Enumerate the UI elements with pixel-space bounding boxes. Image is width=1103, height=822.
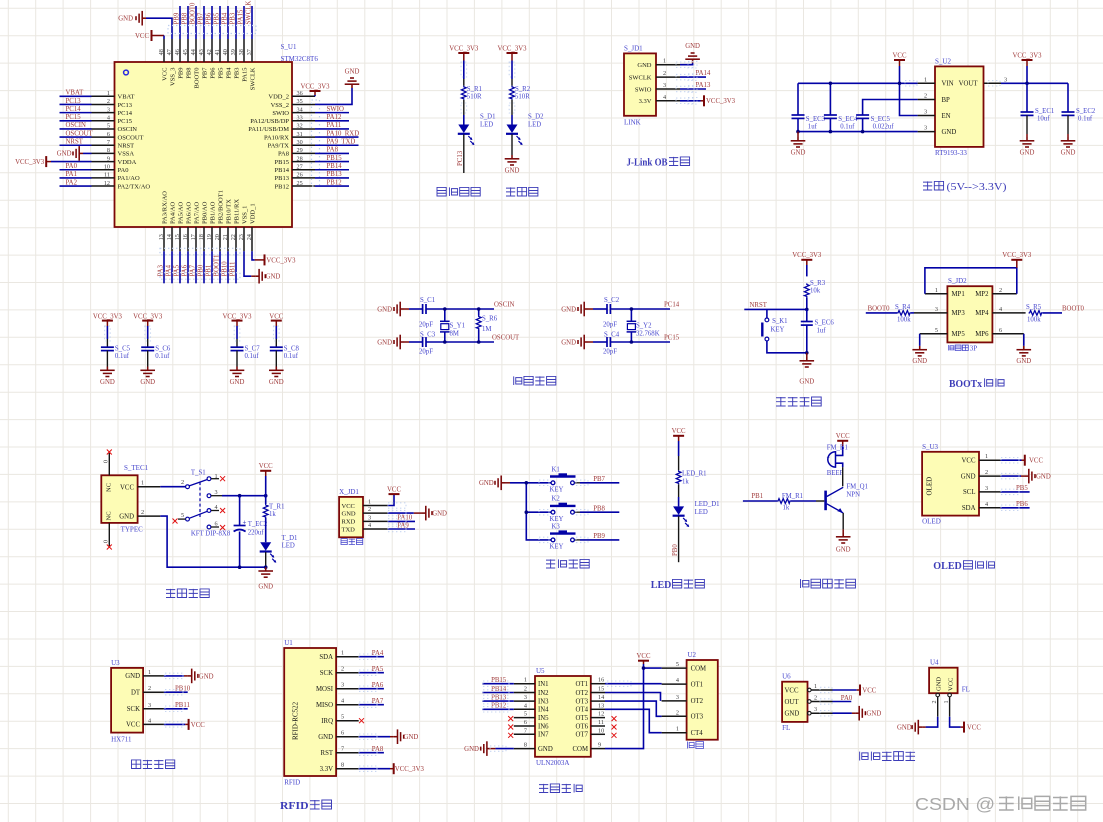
svg-text:2: 2: [999, 287, 1002, 294]
watermark CSDN: [915, 794, 1086, 814]
svg-text:9: 9: [598, 742, 601, 749]
svg-text:PB0: PB0: [672, 544, 679, 556]
svg-text:BEEP: BEEP: [827, 470, 844, 477]
svg-text:OLED: OLED: [922, 518, 941, 526]
svg-text:T_D1: T_D1: [282, 535, 298, 542]
svg-text:IN4: IN4: [538, 707, 549, 714]
svg-text:RT9193-33: RT9193-33: [935, 149, 967, 157]
svg-text:SDA: SDA: [962, 505, 976, 512]
svg-text:PA10 RXD: PA10 RXD: [327, 130, 360, 137]
wire LED_R1 to LED_D1: [678, 484, 680, 506]
svg-text:PA5: PA5: [372, 666, 384, 673]
module U6 body: [782, 682, 807, 722]
junction VCC-COM: [642, 666, 646, 670]
U4 pin circles: [931, 693, 951, 703]
U1 top pins 48-37: [158, 39, 256, 90]
svg-text:VCC_3V3: VCC_3V3: [300, 83, 330, 90]
svg-text:VCC: VCC: [269, 313, 283, 320]
svg-text:32: 32: [297, 123, 303, 130]
svg-text:OLED: OLED: [933, 561, 962, 572]
svg-text:34: 34: [297, 106, 303, 113]
svg-text:PB4: PB4: [225, 67, 232, 79]
svg-text:0: 0: [103, 540, 110, 543]
svg-text:PC15: PC15: [664, 335, 680, 342]
svg-text:20pF: 20pF: [419, 349, 433, 356]
svg-text:VCC: VCC: [1029, 458, 1043, 465]
RFID pins 1-8: [316, 650, 359, 773]
svg-text:GND: GND: [266, 274, 281, 281]
capacitor S_EC2 0.1uf: [1062, 83, 1096, 134]
svg-text:PA1: PA1: [66, 171, 77, 178]
U5 pin11 no-connect right: [612, 725, 617, 730]
selection marks S_U3: [1001, 458, 1019, 511]
svg-text:GND: GND: [464, 746, 479, 753]
svg-text:S_Y1: S_Y1: [450, 323, 466, 330]
svg-text:PB15: PB15: [491, 677, 507, 684]
net PA14 wire at S_JD1 pin 2: [680, 70, 711, 77]
title reset circuit: [776, 397, 821, 406]
svg-text:PB11: PB11: [229, 262, 236, 277]
svg-text:12: 12: [104, 180, 110, 187]
U5 pin7 no-connect: [508, 733, 513, 738]
svg-text:STM32C8T6: STM32C8T6: [281, 55, 319, 63]
wire buzzer to FM_Q1 collector: [842, 467, 844, 486]
svg-text:VCC: VCC: [836, 433, 850, 440]
wire T_S1 pin3 to VCC rail: [211, 495, 266, 497]
svg-text:IN6: IN6: [538, 723, 549, 730]
LED LED_D1: [673, 501, 720, 527]
ground at S_C2: [561, 302, 607, 317]
ground at S_JD2 pin 5: [912, 334, 927, 365]
selection marks S_C6: [145, 326, 151, 341]
svg-text:J-Link OB: J-Link OB: [627, 158, 668, 169]
svg-text:SDA: SDA: [319, 654, 333, 661]
U1 top net label wires PB9..SWCLK: [173, 1, 252, 39]
svg-text:100k: 100k: [897, 316, 911, 323]
svg-text:VCC: VCC: [962, 458, 976, 465]
svg-text:12: 12: [598, 711, 604, 718]
svg-text:PB7: PB7: [197, 12, 204, 24]
selection marks U3: [165, 673, 183, 727]
svg-text:GND: GND: [867, 711, 882, 718]
svg-text:2: 2: [663, 70, 666, 77]
svg-text:PB14: PB14: [491, 686, 507, 693]
S_TEC1 pin names: [106, 483, 135, 521]
svg-text:GND: GND: [561, 306, 576, 313]
svg-text:K3: K3: [552, 523, 561, 530]
net PB15 at U5 pin1: [482, 677, 513, 684]
LED S_D2: [506, 114, 544, 146]
svg-text:PA9/TX: PA9/TX: [268, 143, 290, 150]
svg-text:VCC_3V3: VCC_3V3: [792, 252, 822, 259]
svg-text:2: 2: [368, 506, 371, 513]
svg-text:NRST: NRST: [118, 143, 135, 150]
svg-text:OSCIN: OSCIN: [494, 302, 514, 309]
ground at S_C3: [377, 335, 422, 350]
S_U2 pin VOUT: [959, 76, 1007, 87]
ground TEC section: [258, 567, 273, 590]
net PB13 at U5 pin3: [482, 694, 513, 701]
svg-text:S_C6: S_C6: [155, 346, 171, 353]
key S_K1 KEY: [762, 309, 807, 352]
svg-text:9: 9: [107, 155, 110, 162]
svg-text:8: 8: [107, 147, 110, 154]
svg-text:PB5: PB5: [217, 68, 224, 79]
svg-text:S_Y2: S_Y2: [636, 323, 652, 330]
svg-text:S_C4: S_C4: [604, 331, 620, 338]
svg-text:1k: 1k: [269, 511, 276, 518]
svg-text:SWIO: SWIO: [635, 86, 652, 93]
svg-text:GND: GND: [1061, 150, 1076, 157]
svg-text:0.1uf: 0.1uf: [115, 353, 130, 360]
wire VCC_3V3 to R2: [511, 53, 513, 86]
svg-text:(5V-->3.3V): (5V-->3.3V): [947, 182, 1008, 193]
svg-text:PB13: PB13: [327, 171, 343, 178]
svg-text:20pF: 20pF: [603, 349, 617, 356]
svg-text:GND: GND: [897, 725, 912, 732]
title programmable LED: [437, 187, 480, 196]
svg-text:OSCOUT: OSCOUT: [66, 130, 94, 137]
wire PB7 at K1: [575, 476, 619, 483]
ground at S_C1: [377, 302, 422, 317]
svg-text:VDDA: VDDA: [118, 159, 137, 166]
title RFID module: [280, 800, 332, 812]
crystal S_Y2 32.768K: [627, 309, 660, 342]
LED T_D1: [260, 518, 298, 563]
svg-text:6: 6: [999, 327, 1002, 334]
svg-text:PB10: PB10: [221, 261, 228, 277]
svg-text:PA5/AO: PA5/AO: [177, 202, 184, 224]
svg-text:U1: U1: [284, 639, 293, 647]
power VCC_3V3 above S_C5: [93, 313, 123, 320]
title power 5V to 3.3V: [923, 181, 1007, 193]
title power input circuit: [166, 589, 209, 598]
svg-text:3: 3: [935, 306, 938, 313]
power VCC_3V3 above VOUT: [1012, 52, 1042, 83]
U2 pins 5-1: [662, 661, 707, 737]
svg-text:LED: LED: [480, 122, 493, 129]
wire TEC1 VCC to switch: [160, 486, 185, 488]
resistor S_R6 1M: [476, 309, 497, 342]
svg-text:SWCLK: SWCLK: [249, 67, 256, 90]
svg-text:NC: NC: [106, 511, 113, 520]
T_S1 pin4 no-connect: [211, 508, 225, 513]
svg-text:4: 4: [341, 698, 344, 705]
U1 right net label wires SWIO..PB12: [315, 106, 359, 186]
svg-text:GND: GND: [538, 746, 553, 753]
svg-text:S_D2: S_D2: [528, 114, 544, 121]
svg-text:2: 2: [141, 509, 144, 516]
ground below S_EC1: [1020, 134, 1035, 157]
svg-text:1: 1: [676, 726, 679, 733]
svg-text:3P: 3P: [970, 345, 978, 353]
power VCC above VIN rail: [893, 52, 907, 83]
selection marks U6: [820, 687, 832, 716]
svg-text:COM: COM: [691, 665, 707, 672]
svg-text:4: 4: [985, 501, 988, 508]
LED S_D1: [458, 114, 496, 146]
power VCC at U6 pin1: [833, 685, 877, 696]
svg-text:1: 1: [663, 58, 666, 65]
capacitor S_C8 0.1uf: [270, 321, 300, 367]
svg-text:BOOTx: BOOTx: [949, 379, 983, 390]
svg-text:GND: GND: [685, 43, 700, 50]
svg-text:MP1: MP1: [952, 291, 965, 298]
ground at U1 pin 8 VSSA: [57, 146, 92, 161]
svg-text:0.1uf: 0.1uf: [1078, 116, 1093, 123]
svg-text:BOOT0: BOOT0: [189, 2, 196, 25]
svg-text:GND: GND: [377, 339, 392, 346]
svg-text:S_C3: S_C3: [420, 331, 436, 338]
svg-text:PA3: PA3: [157, 264, 164, 276]
ground at U1 pin 23 VSS_1: [244, 251, 280, 283]
wire OT1 to U2: [605, 683, 662, 685]
svg-text:RXD: RXD: [342, 519, 356, 526]
selection marks S_C5: [105, 326, 111, 341]
wire VCC_3V3 to R3: [806, 260, 808, 277]
junction NRST node: [805, 308, 809, 312]
svg-text:GND: GND: [258, 584, 273, 591]
svg-text:GND: GND: [479, 480, 494, 487]
svg-text:PA11: PA11: [327, 122, 342, 129]
U5 designator: [536, 667, 545, 675]
svg-text:S_JD1: S_JD1: [624, 45, 643, 53]
power VCC above T_R1: [259, 463, 273, 471]
capacitor S_C2 20pF: [603, 297, 620, 328]
U4 designator: [930, 659, 939, 667]
svg-text:PB7: PB7: [593, 476, 605, 483]
svg-text:3: 3: [985, 485, 988, 492]
selection marks power section: [905, 81, 1000, 86]
svg-text:24: 24: [246, 234, 253, 240]
svg-text:15: 15: [174, 234, 181, 240]
ground below S_C6: [140, 367, 155, 387]
svg-text:3: 3: [341, 682, 344, 689]
svg-text:COM: COM: [573, 746, 589, 753]
svg-text:OT3: OT3: [691, 714, 704, 721]
svg-text:PB2/BOOT1: PB2/BOOT1: [217, 190, 224, 224]
svg-text:GND: GND: [199, 673, 214, 680]
svg-text:K1: K1: [552, 466, 560, 473]
power VCC_3V3 at U1 pin 36: [300, 83, 330, 96]
title key circuit: [546, 559, 589, 568]
svg-text:VCC: VCC: [967, 725, 981, 732]
resistor S_R4 100k: [895, 304, 911, 323]
power VCC at U4 pin1: [950, 697, 982, 733]
svg-text:PA12/USB/DP: PA12/USB/DP: [250, 118, 289, 125]
connector S_U3 body: [922, 452, 979, 516]
S_U3 designator: [922, 443, 938, 451]
resistor S_R1 510R: [461, 86, 482, 101]
T_S1 pin6 no-connect: [211, 525, 225, 530]
RFID U1 designator: [284, 639, 293, 647]
S_JD1 part name LINK: [624, 119, 641, 127]
svg-text:KEY: KEY: [771, 327, 785, 334]
capacitor S_EC3 1uf: [792, 83, 826, 131]
ground at U5 pin8: [464, 741, 514, 756]
svg-text:NRST: NRST: [66, 139, 84, 146]
svg-text:LED: LED: [651, 580, 672, 591]
wire R3 to NRST node: [806, 297, 808, 309]
svg-text:PB13: PB13: [275, 175, 289, 182]
svg-text:OT6: OT6: [576, 723, 589, 730]
svg-text:SCK: SCK: [127, 706, 140, 713]
selection marks X_JD1: [388, 503, 406, 532]
title load cell module: [132, 760, 175, 769]
svg-text:PA9 TXD: PA9 TXD: [327, 139, 356, 146]
buzzer FM_B1 BEEP: [827, 441, 848, 477]
svg-text:SCK: SCK: [320, 670, 333, 677]
ground below S_D2: [505, 155, 520, 175]
power VCC_3V3 above S_R3: [792, 252, 822, 260]
svg-text:10k: 10k: [810, 288, 821, 295]
svg-text:1uf: 1uf: [817, 328, 827, 335]
svg-text:1: 1: [107, 90, 110, 97]
U5 pin6 no-connect: [508, 725, 513, 730]
svg-text:3.3V: 3.3V: [320, 766, 333, 773]
svg-text:PB6: PB6: [205, 12, 212, 24]
svg-text:PB14: PB14: [327, 163, 343, 170]
svg-text:PB15: PB15: [275, 159, 289, 166]
svg-text:1: 1: [524, 677, 527, 684]
key K2: [550, 496, 576, 523]
svg-text:SWIO: SWIO: [272, 110, 289, 117]
svg-text:2: 2: [341, 666, 344, 673]
svg-text:20pF: 20pF: [419, 321, 433, 328]
svg-text:PB9: PB9: [593, 533, 605, 540]
svg-text:PC13: PC13: [66, 98, 82, 105]
svg-text:VDD_2: VDD_2: [268, 94, 289, 101]
svg-text:PA4: PA4: [372, 650, 384, 657]
svg-text:MP2: MP2: [975, 291, 989, 298]
svg-text:8: 8: [341, 762, 344, 769]
S_JD2 designator: [948, 277, 967, 285]
svg-text:48: 48: [158, 49, 165, 55]
svg-text:41: 41: [214, 49, 221, 55]
svg-text:T_R1: T_R1: [269, 504, 284, 511]
S_TEC1 designator: [124, 464, 149, 472]
title IR gate: [860, 752, 915, 761]
key K3: [550, 523, 576, 550]
svg-text:3: 3: [107, 106, 110, 113]
power VCC_3V3 at S_JD1 pin 4: [680, 95, 736, 106]
resistor S_R2 510R: [510, 86, 531, 101]
svg-text:33: 33: [297, 114, 303, 121]
svg-text:HX711: HX711: [111, 736, 132, 744]
svg-text:7: 7: [524, 727, 527, 734]
svg-text:KFT DIP-8X8: KFT DIP-8X8: [191, 531, 231, 538]
svg-text:OT3: OT3: [576, 698, 589, 705]
svg-text:4: 4: [999, 306, 1002, 313]
ground below S_C8: [269, 367, 284, 387]
svg-text:OSCIN: OSCIN: [66, 122, 86, 129]
svg-text:IN7: IN7: [538, 732, 549, 739]
svg-text:VCC_3V3: VCC_3V3: [15, 159, 45, 166]
svg-text:3: 3: [368, 514, 371, 521]
svg-text:PC14: PC14: [66, 106, 82, 113]
wire OT2 to U2: [605, 693, 661, 701]
net PB12 at U5 pin4: [482, 703, 513, 710]
svg-text:VCC_3V3: VCC_3V3: [266, 257, 296, 264]
wire R1 to D1: [463, 100, 465, 125]
U2 designator: [688, 651, 697, 659]
svg-text:OSCOUT: OSCOUT: [118, 134, 144, 141]
svg-text:19: 19: [206, 234, 213, 240]
svg-text:44: 44: [190, 49, 197, 55]
ground at U4 pin2: [897, 697, 938, 735]
svg-text:PA15: PA15: [241, 68, 248, 82]
svg-text:VCC: VCC: [161, 68, 168, 81]
svg-text:1: 1: [141, 480, 144, 487]
svg-text:S_C5: S_C5: [115, 346, 131, 353]
svg-text:25: 25: [297, 180, 303, 187]
svg-text:S_EC3: S_EC3: [806, 116, 826, 123]
svg-text:PA0: PA0: [66, 163, 78, 170]
svg-text:S_EC6: S_EC6: [815, 320, 835, 327]
svg-text:KEY: KEY: [550, 544, 564, 551]
net PB14 at U5 pin2: [482, 686, 513, 693]
svg-text:VCC: VCC: [135, 33, 149, 40]
svg-text:1: 1: [341, 650, 344, 657]
svg-text:VCC: VCC: [387, 486, 401, 493]
svg-text:GND: GND: [799, 379, 814, 386]
capacitor T_EC2 220uf: [234, 496, 268, 568]
svg-text:IN2: IN2: [538, 690, 549, 697]
svg-text:3: 3: [215, 489, 218, 496]
svg-text:PA8: PA8: [327, 147, 339, 154]
svg-text:VCC: VCC: [126, 722, 140, 729]
RFID vertical label: [292, 701, 300, 740]
svg-text:5: 5: [181, 512, 184, 519]
svg-text:PB0/AO: PB0/AO: [201, 201, 208, 224]
svg-text:OT4: OT4: [576, 707, 589, 714]
wire PC15 row: [610, 335, 679, 343]
svg-text:47: 47: [166, 49, 173, 55]
power VCC at U3 pin4: [164, 719, 205, 730]
svg-text:VCC: VCC: [637, 653, 651, 660]
svg-text:16: 16: [598, 677, 604, 684]
svg-text:S_U2: S_U2: [935, 58, 951, 66]
svg-text:4: 4: [148, 717, 151, 724]
svg-text:SWCLK: SWCLK: [629, 74, 652, 81]
ground buzzer: [836, 529, 851, 553]
svg-text:VCC: VCC: [342, 503, 355, 510]
svg-text:VCC: VCC: [259, 463, 273, 470]
svg-text:38: 38: [238, 49, 245, 55]
svg-text:VCC_3V3: VCC_3V3: [395, 766, 425, 773]
title LED circuit: [651, 579, 705, 591]
svg-text:BOOT0: BOOT0: [868, 305, 891, 312]
U5 part name ULN2003A: [536, 759, 569, 767]
svg-text:OT7: OT7: [576, 732, 589, 739]
svg-text:U5: U5: [536, 667, 545, 675]
svg-text:3: 3: [924, 109, 927, 116]
svg-text:8: 8: [524, 742, 527, 749]
net PA6 at RFID pin3: [359, 682, 384, 689]
svg-text:3: 3: [1004, 76, 1007, 83]
svg-text:PB3: PB3: [229, 12, 236, 24]
svg-text:GND: GND: [1016, 358, 1031, 365]
title crystal circuit: [514, 376, 556, 385]
svg-text:29: 29: [297, 147, 303, 154]
power VCC at S_U3 pin1: [1001, 455, 1044, 466]
svg-text:10uf: 10uf: [1037, 116, 1050, 123]
svg-text:1k: 1k: [682, 479, 689, 486]
svg-text:S_R1: S_R1: [467, 86, 482, 93]
svg-text:30: 30: [297, 139, 303, 146]
svg-text:28: 28: [297, 155, 303, 162]
net PA10 at X_JD1 pin3: [388, 515, 415, 522]
